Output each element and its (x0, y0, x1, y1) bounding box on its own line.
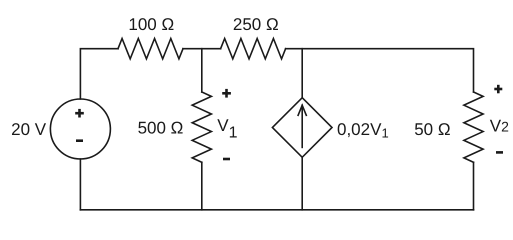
resistor R2 250ohm (221, 39, 286, 59)
plus sign V2 (494, 88, 502, 91)
wire bottom (80, 209, 473, 211)
minus sign V1 (223, 158, 230, 161)
wire current source bottom lead (301, 157, 303, 210)
current source arrow (301, 105, 303, 147)
wire top right to corner (286, 49, 474, 92)
svg-text:20 V: 20 V (11, 120, 47, 139)
svg-text:250 Ω: 250 Ω (233, 15, 279, 34)
resistor R3 500ohm (192, 92, 211, 162)
plus sign V1 (222, 92, 231, 95)
svg-text:50 Ω: 50 Ω (414, 120, 450, 139)
minus sign inside source (76, 139, 83, 142)
wire node B to current source top lead (301, 49, 303, 98)
wire 50ohm bottom lead (473, 162, 475, 210)
svg-text:500 Ω: 500 Ω (138, 119, 184, 138)
plus sign inside source (75, 112, 84, 115)
resistor R4 50ohm (464, 92, 483, 162)
dependent current source diamond (272, 98, 332, 158)
wire top-left corner from source to 100ohm (80, 49, 118, 99)
minus sign V2 (496, 151, 503, 154)
svg-text:V2: V2 (490, 117, 509, 136)
svg-text:0,02V1: 0,02V1 (337, 120, 389, 141)
voltage source V 20V (50, 99, 110, 159)
resistor R1 100ohm (118, 39, 183, 59)
wire node A to 500ohm top lead (201, 49, 203, 92)
wire between R1 and R2 (183, 48, 221, 50)
svg-text:100 Ω: 100 Ω (128, 15, 174, 34)
svg-text:V1: V1 (217, 116, 237, 142)
wire source bottom lead (79, 159, 81, 210)
wire 500ohm bottom lead (201, 162, 203, 210)
